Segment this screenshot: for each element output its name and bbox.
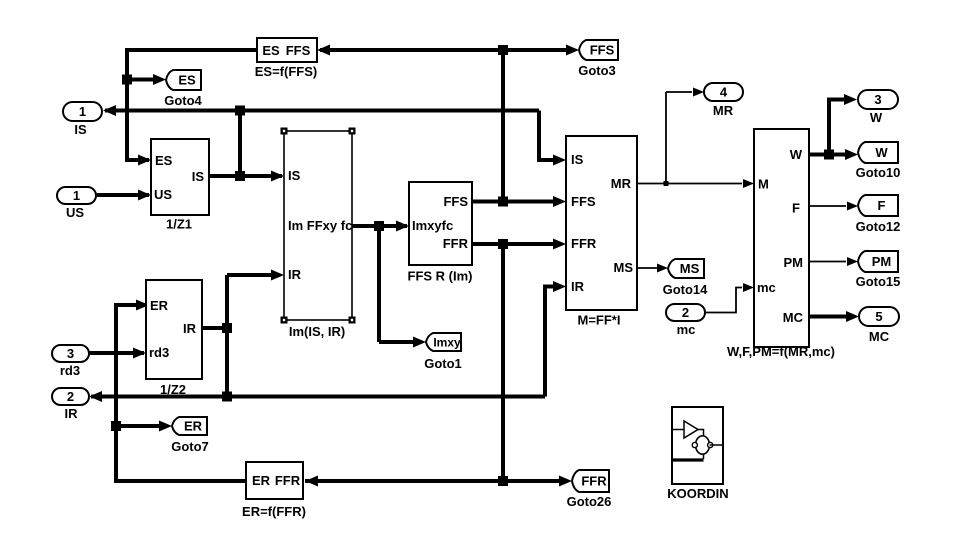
svg-text:ES: ES xyxy=(262,43,280,58)
svg-text:FFR: FFR xyxy=(275,473,301,488)
svg-text:ES=f(FFS): ES=f(FFS) xyxy=(255,64,317,79)
svg-text:2: 2 xyxy=(682,305,689,320)
svg-text:MC: MC xyxy=(869,329,890,344)
svg-text:ER: ER xyxy=(184,419,203,434)
svg-text:FFS: FFS xyxy=(286,43,311,58)
svg-text:F: F xyxy=(792,201,800,216)
svg-text:IS: IS xyxy=(571,152,584,167)
svg-text:mc: mc xyxy=(677,322,696,337)
svg-text:IR: IR xyxy=(571,279,585,294)
svg-text:FFS: FFS xyxy=(590,43,615,58)
svg-text:M=FF*I: M=FF*I xyxy=(578,313,621,328)
svg-text:PM: PM xyxy=(872,254,892,269)
svg-text:MR: MR xyxy=(611,176,632,191)
svg-text:2: 2 xyxy=(67,389,74,404)
svg-text:FFR: FFR xyxy=(443,236,469,251)
svg-text:rd3: rd3 xyxy=(60,363,80,378)
svg-text:IR: IR xyxy=(65,406,79,421)
svg-text:ER: ER xyxy=(150,298,169,313)
svg-text:Imxy: Imxy xyxy=(433,336,461,350)
svg-text:MS: MS xyxy=(680,261,700,276)
svg-text:Goto1: Goto1 xyxy=(424,356,462,371)
svg-text:W: W xyxy=(870,110,883,125)
svg-text:US: US xyxy=(66,205,84,220)
svg-text:MS: MS xyxy=(614,260,634,275)
svg-text:1: 1 xyxy=(79,104,86,119)
svg-text:4: 4 xyxy=(720,85,728,100)
svg-text:Imxyfc: Imxyfc xyxy=(412,218,453,233)
svg-text:W,F,PM=f(MR,mc): W,F,PM=f(MR,mc) xyxy=(727,344,835,359)
svg-text:F: F xyxy=(878,198,886,213)
svg-text:KOORDIN: KOORDIN xyxy=(667,486,728,501)
svg-text:IS: IS xyxy=(192,169,205,184)
svg-text:MC: MC xyxy=(783,310,804,325)
svg-text:FFS: FFS xyxy=(571,194,596,209)
svg-text:3: 3 xyxy=(67,346,74,361)
svg-text:1: 1 xyxy=(73,188,80,203)
svg-text:FFR: FFR xyxy=(581,474,607,489)
svg-text:rd3: rd3 xyxy=(149,345,169,360)
svg-text:W: W xyxy=(790,147,803,162)
svg-text:US: US xyxy=(154,187,172,202)
svg-text:mc: mc xyxy=(757,280,776,295)
svg-text:ES: ES xyxy=(155,153,173,168)
svg-text:Goto10: Goto10 xyxy=(856,165,901,180)
svg-text:MR: MR xyxy=(713,103,734,118)
svg-text:Im(IS, IR): Im(IS, IR) xyxy=(289,324,345,339)
svg-text:3: 3 xyxy=(874,92,881,107)
svg-text:FFR: FFR xyxy=(571,236,597,251)
svg-text:Goto15: Goto15 xyxy=(856,274,901,289)
svg-text:IS: IS xyxy=(74,122,87,137)
svg-text:IR: IR xyxy=(288,267,302,282)
svg-text:1/Z1: 1/Z1 xyxy=(166,217,192,232)
svg-text:ER=f(FFR): ER=f(FFR) xyxy=(242,504,306,519)
svg-text:Goto7: Goto7 xyxy=(171,439,209,454)
svg-text:1/Z2: 1/Z2 xyxy=(160,382,186,397)
svg-text:FFS: FFS xyxy=(443,194,468,209)
svg-text:ER: ER xyxy=(252,473,271,488)
svg-text:ES: ES xyxy=(178,73,196,88)
svg-text:Goto14: Goto14 xyxy=(663,282,709,297)
svg-text:PM: PM xyxy=(784,255,804,270)
svg-text:Goto3: Goto3 xyxy=(578,63,616,78)
svg-text:Goto26: Goto26 xyxy=(567,494,612,509)
svg-text:IS: IS xyxy=(288,168,301,183)
svg-text:M: M xyxy=(758,177,769,192)
svg-text:Goto12: Goto12 xyxy=(856,219,901,234)
svg-text:Im FFxy fc: Im FFxy fc xyxy=(288,218,352,233)
svg-text:5: 5 xyxy=(875,309,882,324)
svg-text:Goto4: Goto4 xyxy=(164,93,202,108)
svg-text:W: W xyxy=(875,145,888,160)
svg-text:IR: IR xyxy=(183,321,197,336)
svg-text:FFS R (Im): FFS R (Im) xyxy=(408,269,473,284)
